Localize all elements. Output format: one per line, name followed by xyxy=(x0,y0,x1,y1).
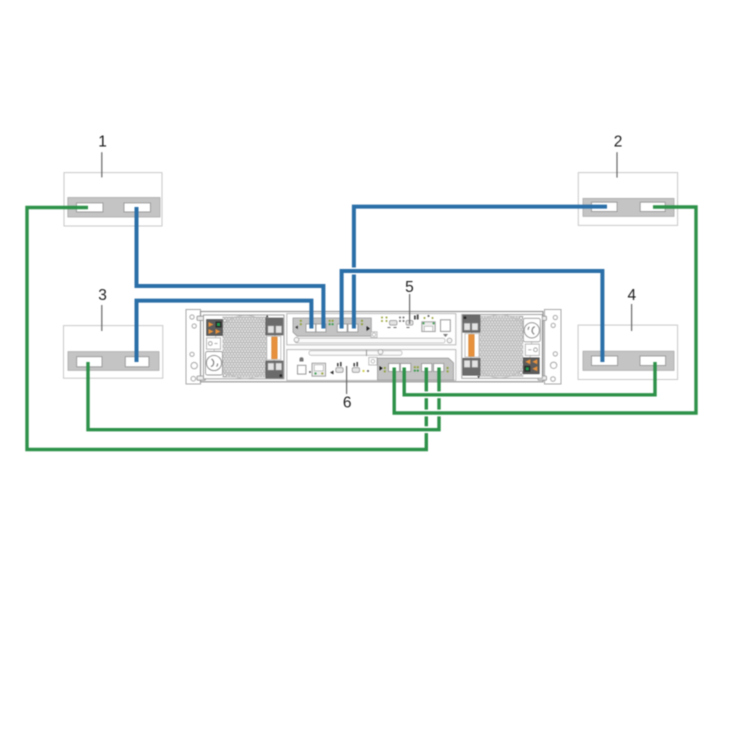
card 2 xyxy=(578,173,677,226)
svg-text:1: 1 xyxy=(98,134,107,151)
handle latches xyxy=(266,318,283,335)
blue B2: card3 -> portA1 xyxy=(137,301,312,362)
HBA CARDS xyxy=(64,173,678,380)
blue B4: card4 -> portA3 xyxy=(342,271,603,362)
svg-text:2: 2 xyxy=(614,134,623,151)
card 3 xyxy=(64,326,163,379)
chassis body xyxy=(201,312,544,382)
switch xyxy=(207,338,221,349)
gap on B3 vertical xyxy=(352,268,357,275)
controllers outline xyxy=(287,314,456,345)
blue B3: card2 -> portA4 xyxy=(354,207,607,329)
svg-text:4: 4 xyxy=(627,287,636,304)
controller A gray SAS panel xyxy=(293,318,371,336)
controller B left details xyxy=(298,357,378,376)
left ear xyxy=(186,310,201,385)
led block xyxy=(207,320,223,336)
square port xyxy=(441,320,451,332)
grooves xyxy=(295,338,445,343)
ENCLOSURE xyxy=(186,310,561,385)
card 1 xyxy=(64,173,162,226)
power socket xyxy=(206,352,223,376)
svg-text:6: 6 xyxy=(343,395,352,412)
screws xyxy=(294,337,452,354)
ethernet xyxy=(422,322,435,332)
right PSU (180 deg rotation of left) xyxy=(462,315,543,379)
blue B1: card1 -> portA2 xyxy=(137,207,324,329)
chassis tabs xyxy=(197,316,547,380)
left PSU xyxy=(204,315,285,379)
svg-text:3: 3 xyxy=(98,287,107,304)
right ear xyxy=(545,310,562,385)
CABLES xyxy=(27,207,696,450)
fan honeycomb xyxy=(223,317,267,378)
controller A right details xyxy=(381,315,450,338)
green G2: card3 -> port4 xyxy=(88,362,439,430)
controller B gray SAS panel xyxy=(378,358,454,380)
card 4 xyxy=(578,325,678,379)
svg-text:5: 5 xyxy=(405,279,414,296)
ethernet B xyxy=(312,363,326,376)
green G4: card4 -> port2 xyxy=(404,362,655,395)
green G1: card1 -> port3 xyxy=(27,208,426,450)
green G3: card2 -> port1 xyxy=(394,207,696,413)
gaps on G1 vertical xyxy=(424,391,429,433)
gaps on G2 vertical xyxy=(437,391,442,416)
controller A latch square xyxy=(371,332,377,338)
